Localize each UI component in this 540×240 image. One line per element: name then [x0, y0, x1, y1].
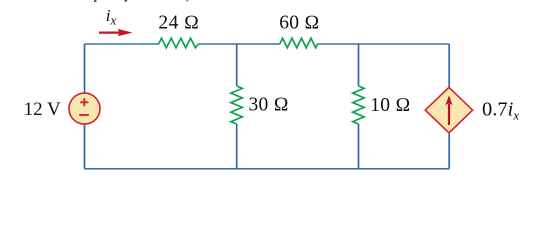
current arrow ix (red, top left) [99, 29, 133, 36]
svg-text:60 Ω: 60 Ω [279, 12, 320, 33]
svg-text:10 Ω: 10 Ω [370, 95, 411, 116]
wire right-middle branch (10 ohm leg) [358, 44, 360, 169]
svg-text:24 Ω: 24 Ω [158, 13, 199, 34]
cropped text fragment dot 1 [94, 0, 96, 2]
wire top (node A to node B segments) [85, 43, 450, 45]
arrow inside dependent source [445, 95, 452, 125]
plus sign of source [80, 98, 88, 106]
svg-text:30 Ω: 30 Ω [249, 94, 290, 115]
wire left branch (through source V) [84, 44, 86, 169]
wire bottom (ground return) [85, 168, 450, 170]
svg-text:12 V: 12 V [24, 99, 61, 120]
wire middle branch (30 ohm leg) [236, 44, 238, 169]
resistor 10 ohm (vertical zigzag) [353, 86, 364, 124]
wire right branch (through dependent source) [448, 44, 450, 169]
dependent current source 0.7ix (diamond) [425, 87, 472, 132]
resistor 60 ohm (top right zigzag) [280, 38, 318, 48]
minus sign of source [79, 114, 89, 116]
cropped text fragment dot 2 [125, 0, 128, 2]
resistor 24 ohm (top left zigzag) [159, 38, 199, 48]
cropped text fragment dot 3 [186, 0, 188, 1]
resistor 30 ohm (vertical zigzag) [231, 86, 242, 124]
voltage source V 12V (circle) [69, 93, 100, 124]
